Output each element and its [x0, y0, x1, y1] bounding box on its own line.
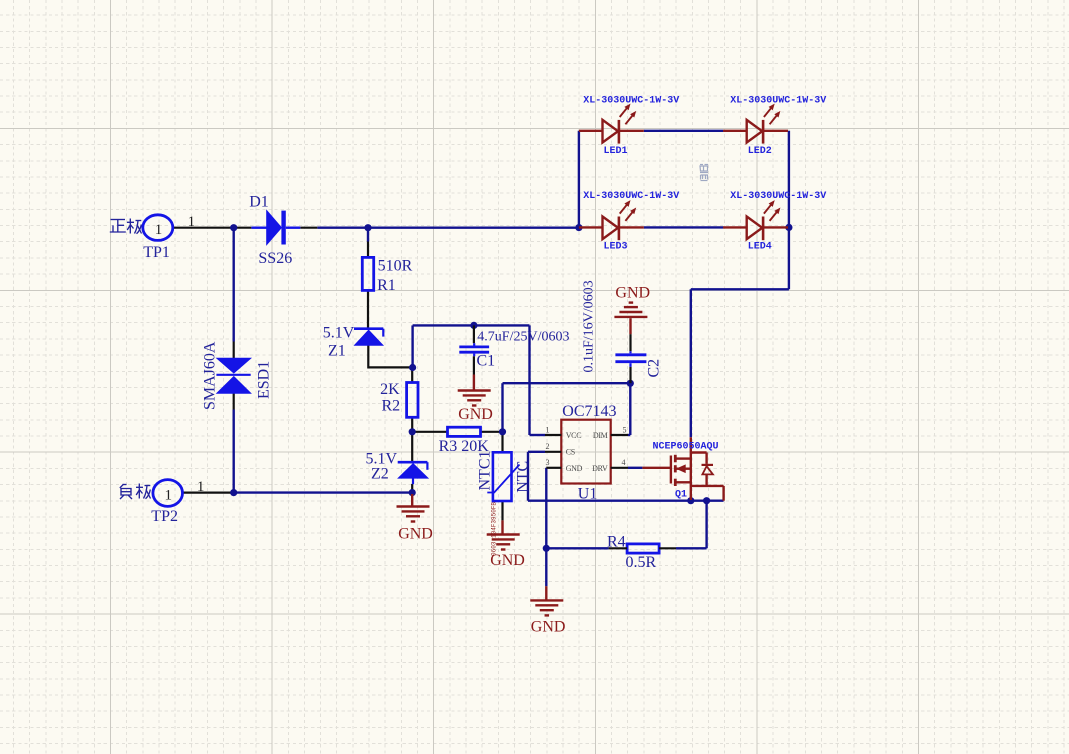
svg-text:NTC: NTC	[515, 461, 532, 493]
label reserved text (Chinese, rotated)	[700, 165, 708, 181]
wire TP2 to Z2 node	[234, 491, 413, 493]
wire ESD1 lower vertical	[233, 393, 235, 409]
svg-text:Z2: Z2	[371, 465, 389, 482]
svg-text:3: 3	[546, 458, 550, 467]
svg-text:DRV: DRV	[592, 464, 608, 473]
zener diode Z2 5.1V	[398, 462, 428, 484]
svg-text:1: 1	[546, 426, 550, 435]
wire DIM node riser	[501, 383, 503, 432]
resistor R3 20K	[448, 427, 481, 436]
wire Z2 to GND node	[411, 484, 413, 493]
svg-text:0.5R: 0.5R	[626, 554, 657, 571]
wire ESD1 upper vertical	[232, 228, 234, 342]
svg-text:5: 5	[623, 426, 627, 435]
label TP1 positive (Chinese)	[110, 219, 142, 234]
svg-text:Z1: Z1	[328, 342, 346, 359]
wire R3 node to Z2	[411, 432, 413, 461]
LED LED3 XL-3030UWC-1W-3V	[579, 201, 644, 240]
zener diode Z1 5.1V	[354, 329, 383, 346]
svg-text:U1: U1	[578, 485, 598, 502]
ground at C1	[473, 375, 475, 391]
wire DIM node horizontal	[503, 382, 631, 384]
ground at Z2	[411, 494, 413, 507]
R4 left lead	[609, 547, 628, 549]
svg-text:CS: CS	[566, 448, 575, 457]
R4 right lead	[659, 547, 676, 549]
svg-text:1: 1	[165, 488, 173, 504]
junction LED right rail	[785, 224, 792, 231]
wire Z1 node to R2	[411, 368, 413, 383]
wire NTC1 bottom lead	[501, 501, 503, 520]
svg-text:GND: GND	[566, 464, 583, 473]
junction Z2 node	[409, 489, 416, 496]
svg-text:NTC1: NTC1	[477, 451, 494, 491]
svg-text:SMAJ60A: SMAJ60A	[202, 341, 219, 410]
svg-text:VCC: VCC	[566, 431, 582, 440]
wire CS pin to rail	[528, 451, 545, 453]
resistor R1 510R	[362, 257, 373, 290]
svg-text:0.1uF/16V/0603: 0.1uF/16V/0603	[582, 280, 597, 372]
svg-text:1: 1	[197, 479, 205, 495]
junction C2 DIM node	[627, 380, 634, 387]
TVS diode ESD1 SMAJ60A	[216, 358, 250, 393]
wire TP1 to D1 lead	[173, 227, 251, 229]
svg-text:TP1: TP1	[143, 244, 170, 261]
svg-text:0603 104F3950FB: 0603 104F3950FB	[491, 502, 498, 556]
svg-text:LED4: LED4	[748, 241, 772, 252]
svg-text:Q1: Q1	[675, 490, 687, 501]
svg-text:510R: 510R	[378, 257, 413, 274]
LED LED1 XL-3030UWC-1W-3V	[579, 105, 644, 144]
junction R3 NTC node	[499, 428, 506, 435]
svg-text:DIM: DIM	[593, 431, 608, 440]
junction Q1 source node	[687, 497, 694, 504]
wire LED1-LED2 link	[644, 130, 724, 132]
ground at NTC1	[501, 520, 503, 534]
ground at C2 inverted	[629, 318, 631, 334]
wire net VIN main horizontal	[317, 226, 579, 228]
junction TP2 node	[230, 489, 237, 496]
svg-text:C2: C2	[646, 359, 663, 378]
wire Z1 node riser	[411, 325, 413, 367]
svg-text:4.7uF/25V/0603: 4.7uF/25V/0603	[477, 329, 569, 344]
capacitor C1 4.7uF	[459, 325, 489, 374]
pin 4 DRV lead	[611, 467, 628, 469]
wire R4 left	[546, 547, 608, 549]
wire R1 to Z1	[367, 290, 369, 328]
svg-text:2K: 2K	[380, 381, 400, 398]
wire D1 cathode stub	[300, 227, 317, 229]
pin 1 VCC lead	[545, 434, 561, 436]
svg-text:R2: R2	[382, 398, 401, 415]
wire TP2 lead	[183, 492, 234, 494]
wire top rail to C1 and VCC	[413, 324, 530, 326]
junction C1 top	[470, 322, 477, 329]
junction at TP1 node	[230, 224, 237, 231]
svg-text:ESD1: ESD1	[256, 361, 273, 399]
svg-text:5.1V: 5.1V	[323, 324, 355, 341]
svg-text:GND: GND	[490, 552, 525, 569]
testpoint TP1	[143, 215, 173, 241]
wire Z1 anode elbow	[368, 345, 412, 367]
svg-text:XL-3030UWC-1W-3V: XL-3030UWC-1W-3V	[730, 191, 826, 202]
LED LED2 XL-3030UWC-1W-3V	[723, 105, 788, 144]
wire NTC1 top lead	[501, 432, 503, 453]
junction R4 GND node	[543, 545, 550, 552]
wire right rail to Q1 drain	[691, 288, 789, 290]
wire C2 to DIM pin	[629, 383, 631, 435]
junction at D1 output	[364, 224, 371, 231]
capacitor C2 0.1uF	[615, 334, 646, 383]
svg-text:GND: GND	[398, 526, 433, 543]
wire DRV to Q1 gate	[628, 467, 642, 469]
wire R4 right riser	[676, 547, 707, 549]
svg-text:LED2: LED2	[748, 146, 772, 157]
junction Z1 anode node	[409, 364, 416, 371]
wire R1 drop	[367, 228, 369, 242]
junction R4 right node	[703, 497, 710, 504]
resistor R4 0.5R	[627, 544, 659, 553]
wire CS bottom rail	[528, 500, 724, 502]
svg-text:R1: R1	[377, 277, 396, 294]
svg-text:LED1: LED1	[604, 146, 628, 157]
MOSFET Q1 NCEP6050AQU	[642, 437, 723, 500]
pin 5 DIM lead	[611, 434, 628, 436]
svg-text:NCEP6050AQU: NCEP6050AQU	[653, 441, 719, 452]
svg-text:D1: D1	[249, 193, 269, 210]
wire R2 to R3 node	[411, 417, 413, 432]
svg-text:2: 2	[546, 442, 550, 451]
junction LED left rail	[575, 224, 582, 231]
svg-text:SS26: SS26	[258, 250, 292, 267]
IC U1 OC7143 body	[561, 420, 610, 484]
wire LED right rail	[788, 131, 790, 289]
svg-text:XL-3030UWC-1W-3V: XL-3030UWC-1W-3V	[583, 96, 679, 107]
svg-text:1: 1	[188, 214, 196, 230]
svg-text:GND: GND	[615, 285, 650, 302]
svg-text:GND: GND	[531, 619, 566, 636]
svg-text:LED3: LED3	[604, 241, 628, 252]
pin 2 CS lead	[545, 451, 561, 453]
svg-text:OC7143: OC7143	[562, 403, 616, 420]
diode D1 SS26	[251, 211, 300, 245]
svg-text:C1: C1	[477, 352, 496, 369]
resistor R2 2K	[407, 383, 418, 418]
wire LED3-LED4 link	[644, 226, 724, 228]
wire GND pin vertical	[545, 468, 547, 586]
wire R3 row	[412, 431, 447, 433]
svg-text:TP2: TP2	[151, 508, 178, 525]
svg-text:1: 1	[155, 222, 163, 238]
svg-text:XL-3030UWC-1W-3V: XL-3030UWC-1W-3V	[583, 191, 679, 202]
thermistor NTC1	[487, 452, 519, 501]
svg-text:XL-3030UWC-1W-3V: XL-3030UWC-1W-3V	[730, 96, 826, 107]
wire LED left rail	[578, 131, 580, 228]
ground at U1 GND pin	[545, 586, 547, 600]
testpoint TP2	[153, 480, 183, 507]
LED LED4 XL-3030UWC-1W-3V	[723, 201, 788, 240]
svg-text:4: 4	[622, 458, 626, 467]
svg-text:GND: GND	[458, 406, 493, 423]
junction R2 R3 node	[409, 428, 416, 435]
label TP2 negative (Chinese)	[120, 484, 151, 500]
pin 3 GND lead	[546, 467, 561, 469]
